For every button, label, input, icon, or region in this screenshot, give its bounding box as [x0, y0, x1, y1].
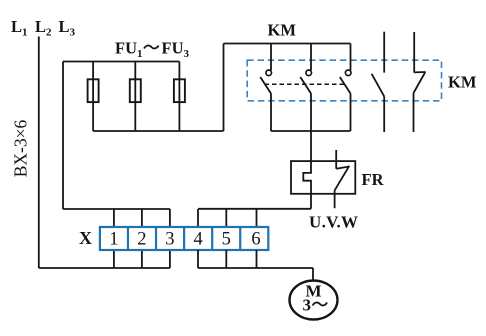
fuse FU2 — [130, 79, 141, 102]
wire stub below terminal 4 — [197, 250, 199, 268]
KM main contact pole 3 — [340, 44, 351, 132]
wire KM to FR heater with notch — [303, 131, 311, 209]
wire stub above terminal 2 — [141, 209, 143, 227]
svg-text:3: 3 — [303, 296, 312, 315]
KM mechanical link (dashed) — [265, 83, 347, 85]
svg-text:1: 1 — [109, 229, 118, 249]
svg-text:FU3: FU3 — [162, 39, 190, 61]
wire L2 drop — [38, 37, 40, 269]
wire fuse top bus — [63, 61, 179, 63]
svg-text:BX-3×6: BX-3×6 — [11, 120, 31, 178]
fuse FU3 — [174, 79, 185, 102]
KM main contact pole 2 — [300, 44, 311, 132]
KM auxiliary NC contact — [414, 32, 426, 132]
motor tilde — [313, 302, 328, 305]
terminal dividers — [128, 227, 240, 250]
svg-text:6: 6 — [251, 229, 260, 249]
wire stub above terminal 3 — [169, 209, 171, 227]
tilde between FU1 and FU3 — [144, 45, 159, 48]
svg-text:L1: L1 — [11, 17, 28, 39]
wire KM top bus — [224, 43, 351, 45]
wire stub below terminal 6 — [256, 250, 258, 268]
KM main contact pole 1 — [260, 44, 271, 132]
wire fuse 3 — [178, 62, 180, 132]
wire fuse 2 — [134, 62, 136, 132]
svg-text:3: 3 — [165, 229, 174, 249]
KM auxiliary NO contact — [372, 32, 385, 132]
wire top bus terminals 1-3 — [63, 208, 170, 210]
svg-text:FR: FR — [362, 170, 385, 189]
svg-text:X: X — [79, 228, 92, 248]
wire riser to KM bus — [223, 44, 225, 132]
FR box U1 — [291, 161, 355, 194]
svg-text:U.V.W: U.V.W — [309, 213, 358, 232]
wire bottom bus terminals 1-3 — [39, 267, 170, 269]
svg-text:L2: L2 — [35, 17, 52, 39]
wire stub below terminal 2 — [141, 250, 143, 268]
fuse FU1 — [88, 79, 99, 102]
wire stub above terminal 6 — [256, 209, 258, 227]
wire stub above terminal 1 — [113, 209, 115, 227]
FR trip contact — [335, 150, 350, 208]
terminal block X outer — [100, 227, 268, 250]
wire fuse bottom bus — [93, 130, 223, 132]
wire stub below terminal 3 — [169, 250, 171, 268]
wire stub below terminal 1 — [113, 250, 115, 268]
svg-text:2: 2 — [137, 229, 146, 249]
wire left control drop — [62, 62, 64, 210]
wire bottom bus terminals 4-6 — [198, 267, 313, 269]
KM dashed enclosure — [247, 60, 441, 101]
wire top bus terminals 4-6 — [198, 208, 311, 210]
motor M — [290, 281, 338, 320]
svg-text:4: 4 — [193, 229, 202, 249]
svg-text:5: 5 — [222, 229, 231, 249]
wire fuse 1 — [92, 62, 94, 132]
wire stub above terminal 4 — [197, 209, 199, 227]
wire KM bottom bus — [271, 130, 351, 132]
svg-text:KM: KM — [268, 21, 297, 40]
wire drop to motor — [312, 268, 314, 281]
wire stub above terminal 5 — [225, 209, 227, 227]
svg-text:FU1: FU1 — [115, 39, 143, 61]
svg-text:KM: KM — [448, 73, 477, 92]
wire stub below terminal 5 — [225, 250, 227, 268]
svg-text:L3: L3 — [59, 17, 76, 39]
